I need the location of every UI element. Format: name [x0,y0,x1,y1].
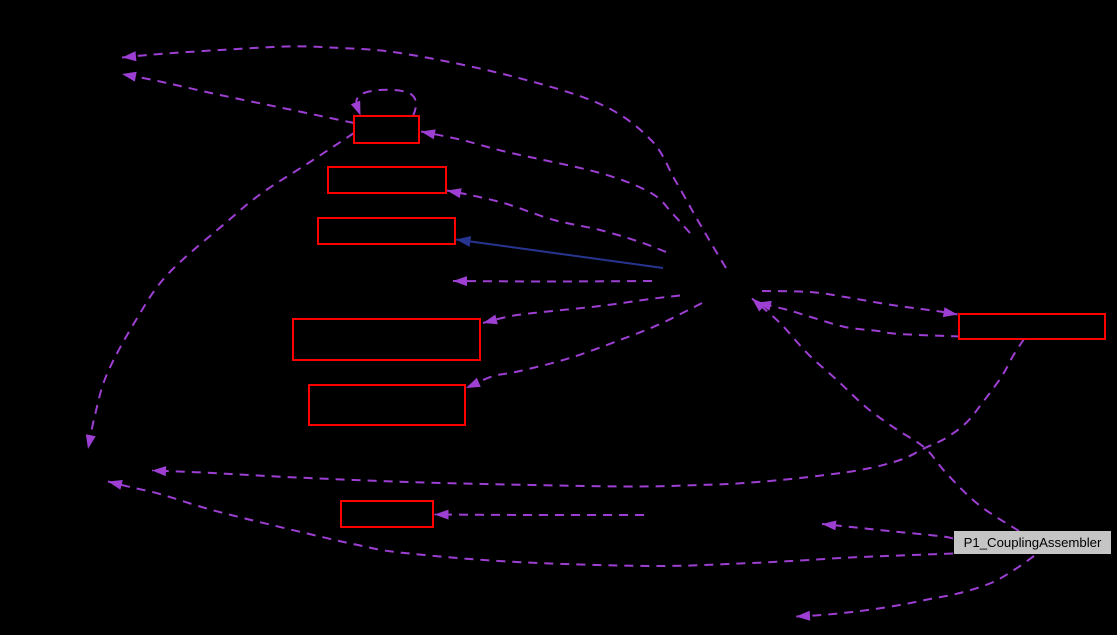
edge: center node to box2 right side [447,188,666,252]
edge: right box sweeping down-left to bottom-left node [152,339,1024,487]
node box3 (red) [318,218,455,244]
node box1 (red, with self-loop) [354,116,419,143]
node box5 (red, two-line) [309,385,465,425]
node right box (red) [959,314,1105,339]
edge: center node to far top-left node (long top arc) [122,46,726,268]
edge: hidden middle node to box6 right side [435,510,645,520]
edge: right box back to center node (return curve) [757,301,960,337]
node box4 (red, two-line) [293,319,480,360]
node box2 (red) [328,167,446,193]
svg-text:P1_CouplingAssembler: P1_CouplingAssembler [964,535,1102,550]
edge: gray node to hidden middle node [822,521,953,539]
edge: gray node to bottom-left arrow [796,556,1034,621]
edge: box1 big arc down the left side [86,133,354,449]
edge: blue solid from center node to box3 right side [456,236,663,268]
edge: box1 to far top-left node [122,72,354,123]
node box6 (red) [341,501,433,527]
edge: center node to box5 top-right corner [466,303,702,388]
node P1_CouplingAssembler (gray current node) [954,531,1111,554]
edge: center node to box1 right side [421,129,690,233]
edge: center node to box4 right side [483,296,680,325]
edge: self-loop on box1 [351,90,416,116]
edge: gray node sweeping along bottom to left node [108,480,953,566]
edge: gray node up to center node (long diagonal) [752,299,1019,532]
edge: center node to hidden left node (horizontal) [453,276,652,286]
edge: center node to right box (forward curve) [762,291,958,317]
